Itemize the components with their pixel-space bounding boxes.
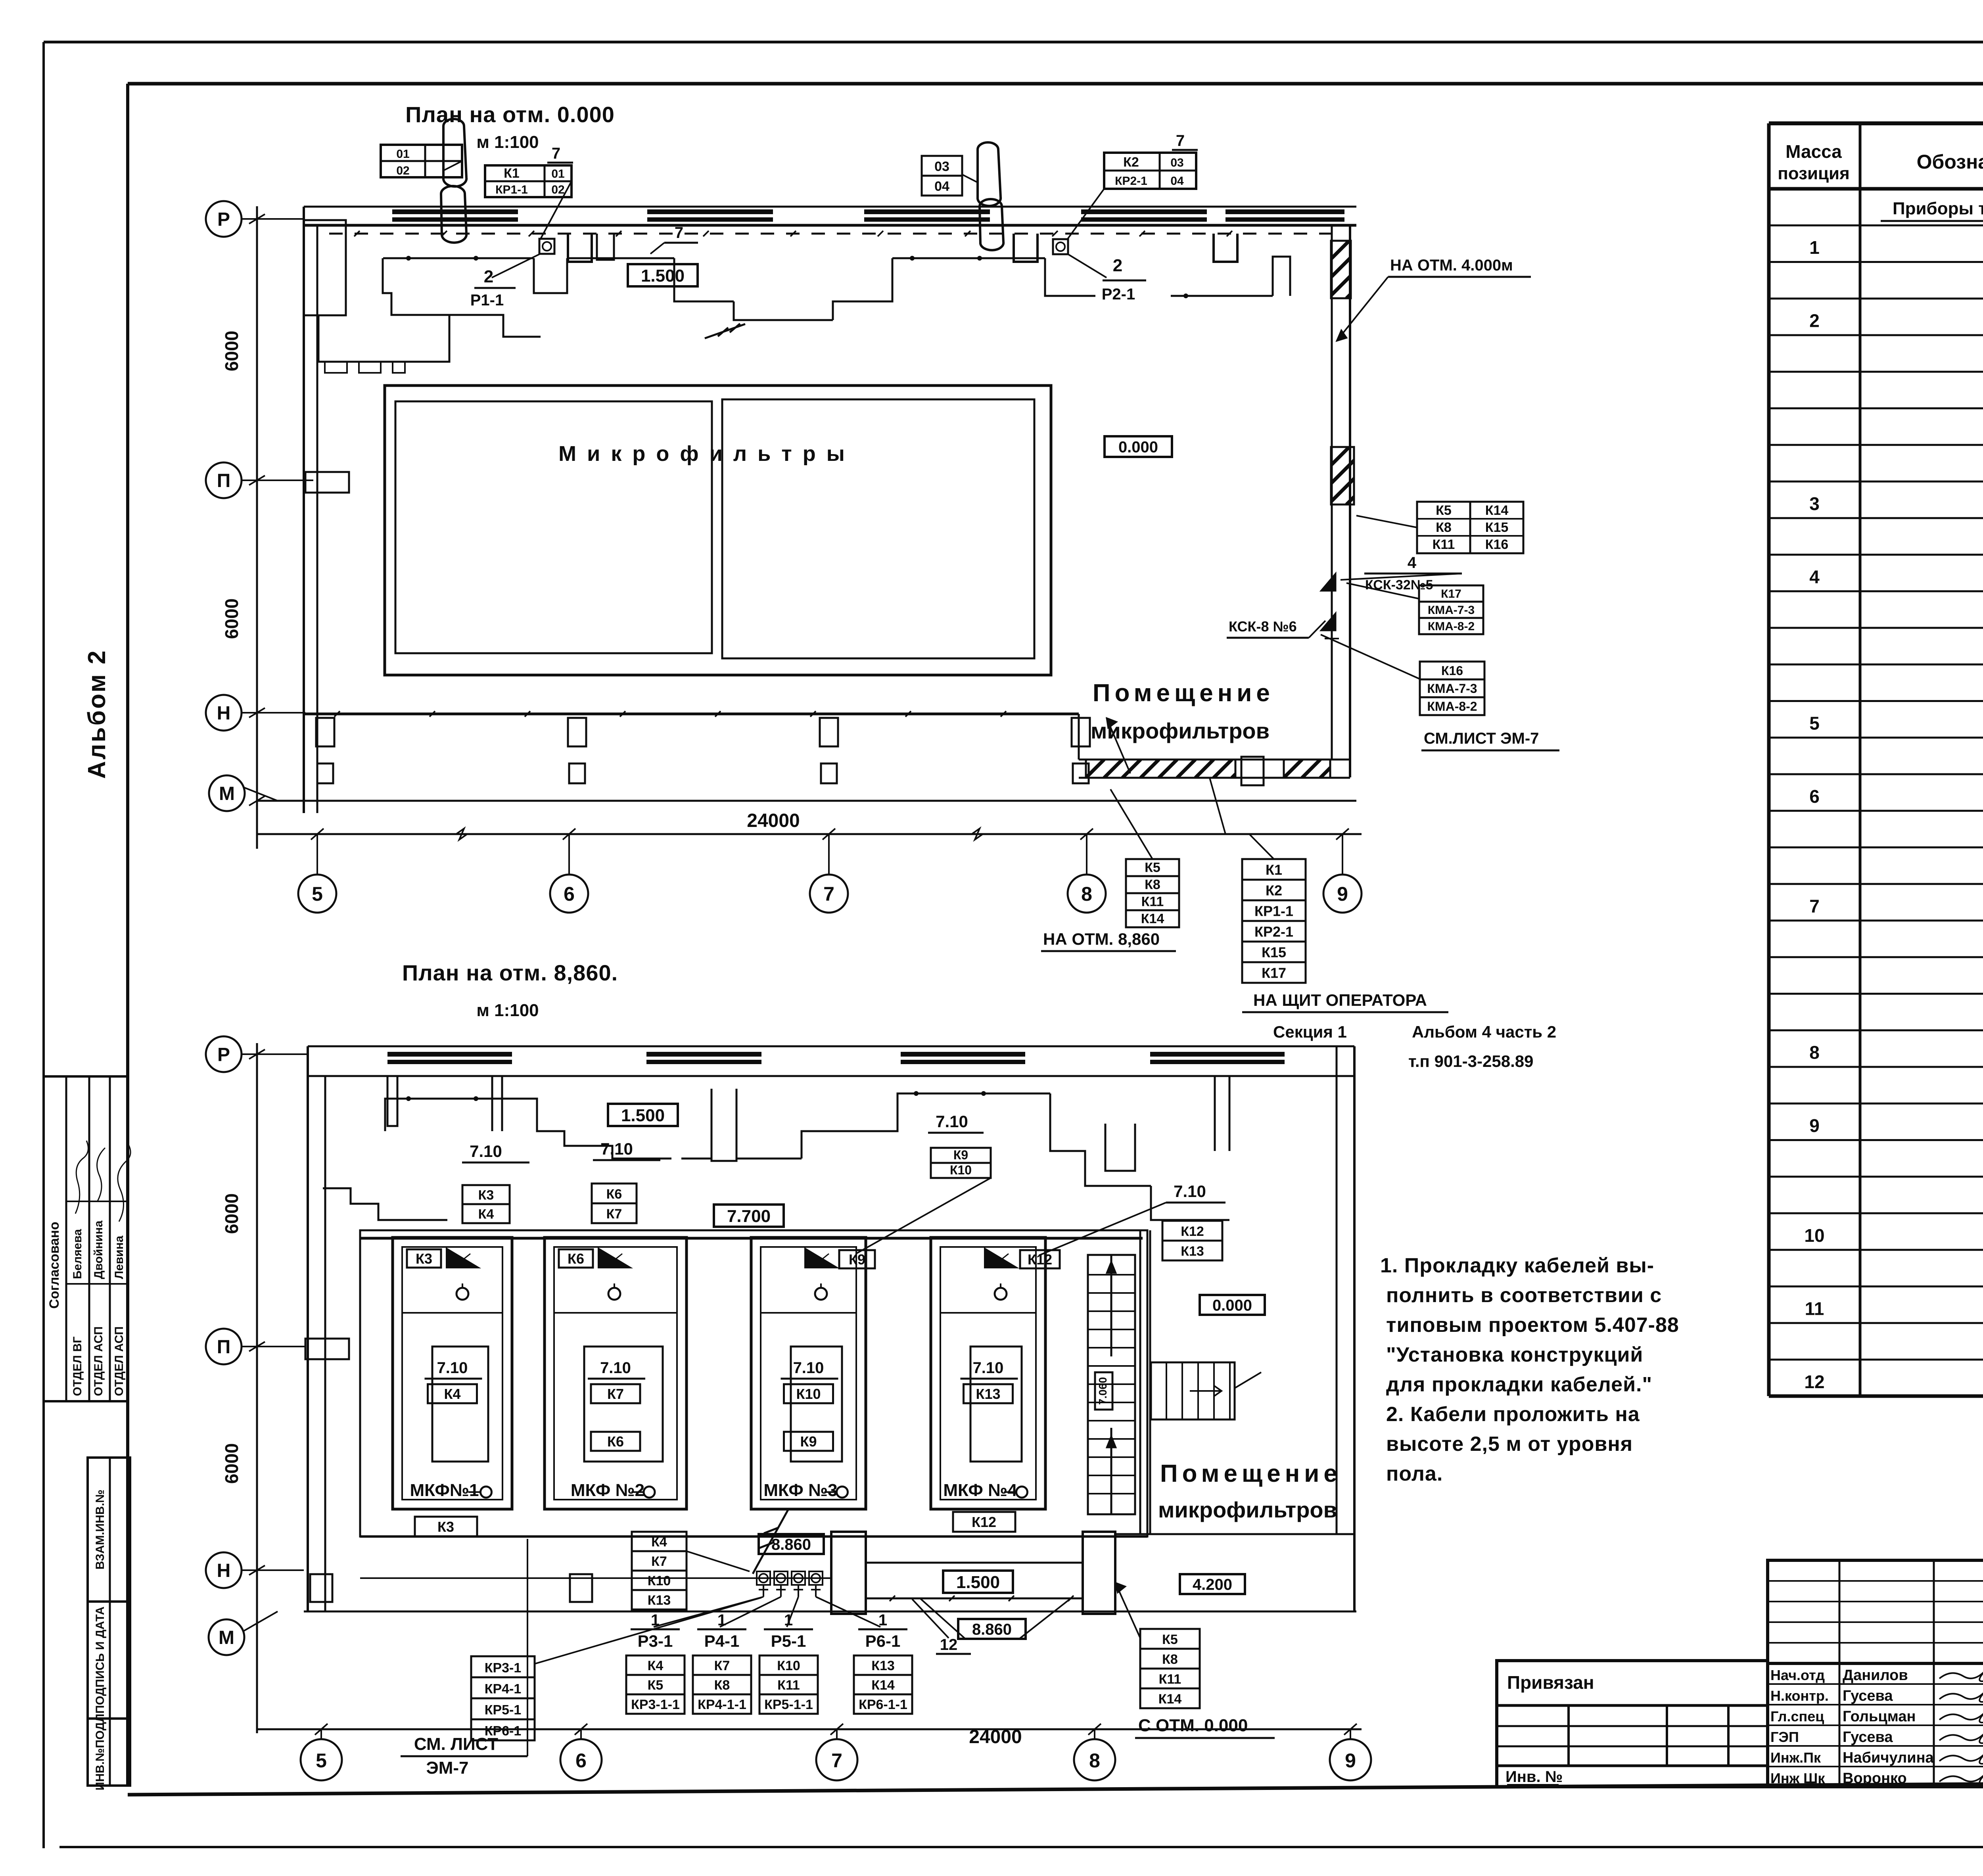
svg-text:Секция 1: Секция 1: [1273, 1022, 1347, 1041]
svg-text:К4: К4: [478, 1207, 494, 1222]
svg-text:м 1:100: м 1:100: [476, 132, 539, 152]
svg-text:Альбом 4 часть 2: Альбом 4 часть 2: [1412, 1022, 1556, 1041]
svg-text:9: 9: [1345, 1749, 1356, 1772]
svg-text:2: 2: [484, 267, 493, 286]
svg-text:Гольцман: Гольцман: [1843, 1708, 1916, 1725]
svg-text:04: 04: [934, 179, 949, 194]
svg-text:МКФ№1: МКФ№1: [410, 1481, 479, 1500]
svg-text:К8: К8: [1436, 520, 1452, 535]
svg-text:7.10: 7.10: [437, 1359, 468, 1377]
svg-text:7.10: 7.10: [973, 1359, 1004, 1377]
svg-text:04: 04: [1170, 175, 1184, 188]
svg-text:К7: К7: [606, 1207, 622, 1222]
svg-text:2: 2: [1809, 311, 1820, 331]
svg-text:5: 5: [316, 1749, 327, 1772]
svg-text:1: 1: [784, 1611, 793, 1629]
svg-text:К4: К4: [651, 1535, 667, 1550]
svg-text:Двойнина: Двойнина: [92, 1220, 105, 1279]
svg-text:К1: К1: [1266, 862, 1282, 878]
svg-text:7.10: 7.10: [600, 1359, 631, 1377]
svg-text:План на отм. 0.000: План на отм. 0.000: [405, 102, 615, 127]
svg-text:1: 1: [717, 1611, 726, 1629]
svg-text:10: 10: [1804, 1225, 1824, 1246]
svg-text:К13: К13: [1181, 1244, 1204, 1259]
svg-text:7.700: 7.700: [727, 1207, 771, 1226]
svg-text:КР3-1-1: КР3-1-1: [631, 1697, 680, 1712]
svg-text:П: П: [217, 1337, 231, 1358]
svg-text:КМА-7-3: КМА-7-3: [1428, 604, 1475, 617]
svg-text:6000: 6000: [221, 331, 242, 371]
svg-text:7.10: 7.10: [600, 1139, 633, 1158]
svg-text:6: 6: [1809, 786, 1820, 807]
svg-text:КР4-1: КР4-1: [485, 1681, 522, 1696]
svg-text:КР6-1-1: КР6-1-1: [859, 1697, 907, 1712]
svg-text:КР1-1: КР1-1: [495, 183, 528, 196]
svg-text:Нач.отд: Нач.отд: [1770, 1667, 1825, 1683]
svg-text:0.000: 0.000: [1118, 438, 1158, 456]
svg-text:К10: К10: [796, 1386, 821, 1402]
svg-text:Инж.Пк: Инж.Пк: [1770, 1749, 1821, 1766]
svg-text:МКФ №4: МКФ №4: [943, 1481, 1017, 1500]
svg-text:для прокладки кабелей.": для прокладки кабелей.": [1386, 1373, 1652, 1396]
svg-text:высоте 2,5 м от уровня: высоте 2,5 м от уровня: [1386, 1433, 1633, 1456]
svg-text:0.000: 0.000: [1212, 1297, 1252, 1314]
svg-text:Р1-1: Р1-1: [470, 292, 504, 309]
svg-text:4: 4: [1809, 566, 1820, 587]
svg-text:7.060: 7.060: [1097, 1377, 1109, 1405]
svg-text:6000: 6000: [221, 1443, 242, 1484]
svg-text:7: 7: [1176, 132, 1185, 150]
svg-text:Гусева: Гусева: [1843, 1688, 1893, 1704]
svg-text:К5: К5: [1162, 1632, 1178, 1647]
svg-text:К10: К10: [950, 1163, 972, 1177]
svg-text:Воронко: Воронко: [1843, 1770, 1907, 1787]
svg-text:1: 1: [1809, 237, 1820, 258]
svg-text:Р3-1: Р3-1: [638, 1632, 673, 1650]
svg-text:7: 7: [552, 145, 560, 162]
svg-text:ЭМ-7: ЭМ-7: [426, 1758, 468, 1778]
svg-text:3: 3: [1809, 493, 1820, 514]
svg-text:Р5-1: Р5-1: [771, 1632, 806, 1650]
svg-text:9: 9: [1809, 1115, 1820, 1136]
svg-text:КР4-1-1: КР4-1-1: [698, 1697, 746, 1712]
svg-text:К11: К11: [1141, 894, 1164, 909]
svg-text:6: 6: [575, 1749, 587, 1772]
svg-text:Привязан: Привязан: [1507, 1672, 1594, 1693]
svg-text:КР2-1: КР2-1: [1254, 924, 1293, 940]
svg-text:8.860: 8.860: [972, 1621, 1012, 1638]
svg-text:Обозначение: Обозначение: [1917, 151, 1983, 173]
svg-text:ИНВ.№ПОДЛ: ИНВ.№ПОДЛ: [94, 1714, 107, 1791]
svg-text:М: М: [219, 783, 235, 804]
svg-text:КМА-8-2: КМА-8-2: [1427, 699, 1477, 714]
svg-text:КР3-1: КР3-1: [485, 1660, 522, 1675]
svg-text:Гл.спец: Гл.спец: [1770, 1708, 1824, 1724]
svg-text:КР2-1: КР2-1: [1115, 175, 1147, 188]
svg-text:К9: К9: [849, 1251, 865, 1268]
svg-text:СМ.ЛИСТ ЭМ-7: СМ.ЛИСТ ЭМ-7: [1424, 730, 1539, 747]
svg-text:Гусева: Гусева: [1843, 1729, 1893, 1746]
svg-text:7: 7: [823, 883, 834, 905]
svg-text:К11: К11: [1159, 1672, 1181, 1687]
svg-text:К2: К2: [1266, 882, 1282, 899]
svg-text:К15: К15: [1485, 520, 1509, 535]
svg-text:К9: К9: [800, 1433, 817, 1450]
svg-text:К6: К6: [606, 1187, 622, 1202]
svg-text:7.10: 7.10: [470, 1142, 502, 1161]
svg-text:К8: К8: [1145, 877, 1160, 892]
svg-text:К3: К3: [437, 1519, 454, 1535]
svg-text:Р: Р: [217, 209, 230, 230]
svg-text:ОТДЕЛ АСП: ОТДЕЛ АСП: [92, 1326, 105, 1396]
svg-text:КР1-1: КР1-1: [1254, 903, 1293, 919]
svg-text:К17: К17: [1262, 965, 1286, 981]
svg-text:ОТДЕЛ АСП: ОТДЕЛ АСП: [113, 1326, 126, 1396]
svg-text:позиция: позиция: [1778, 164, 1850, 183]
svg-text:М и к р о ф и л ь т р ы: М и к р о ф и л ь т р ы: [558, 442, 847, 466]
svg-text:Н.контр.: Н.контр.: [1770, 1688, 1829, 1704]
svg-text:1: 1: [878, 1611, 887, 1629]
svg-text:К9: К9: [953, 1148, 968, 1162]
svg-text:Инв. №: Инв. №: [1505, 1768, 1563, 1786]
svg-text:1. Прокладку кабелей вы-: 1. Прокладку кабелей вы-: [1380, 1254, 1654, 1277]
svg-text:8: 8: [1089, 1749, 1100, 1772]
svg-text:1: 1: [651, 1611, 660, 1629]
svg-text:5: 5: [1809, 713, 1820, 733]
svg-text:4: 4: [1408, 554, 1417, 572]
svg-text:К14: К14: [1158, 1692, 1182, 1707]
svg-text:Н: Н: [217, 1560, 231, 1581]
svg-text:02: 02: [551, 183, 564, 196]
svg-text:К10: К10: [777, 1658, 800, 1673]
svg-text:К5: К5: [1145, 860, 1160, 875]
svg-text:К13: К13: [648, 1593, 671, 1608]
svg-text:КР5-1: КР5-1: [485, 1702, 522, 1717]
svg-text:Помещение: Помещение: [1093, 679, 1274, 707]
svg-text:7.10: 7.10: [793, 1359, 824, 1377]
svg-text:Инж Шк: Инж Шк: [1770, 1770, 1825, 1786]
svg-text:К4: К4: [648, 1658, 664, 1673]
svg-text:7.10: 7.10: [1174, 1182, 1206, 1201]
svg-text:6000: 6000: [221, 598, 242, 639]
svg-text:К14: К14: [1141, 911, 1164, 926]
svg-text:микрофильтров: микрофильтров: [1158, 1497, 1337, 1522]
svg-text:7: 7: [1809, 896, 1820, 917]
svg-text:К13: К13: [871, 1658, 895, 1673]
svg-text:полнить в соответствии с: полнить в соответствии с: [1386, 1284, 1662, 1307]
svg-text:КМА-7-3: КМА-7-3: [1427, 681, 1477, 696]
svg-text:К1: К1: [504, 166, 520, 181]
svg-text:1.500: 1.500: [956, 1573, 1000, 1592]
svg-text:Помещение: Помещение: [1160, 1460, 1342, 1487]
svg-text:Н: Н: [217, 703, 231, 724]
svg-text:К2: К2: [1123, 155, 1139, 170]
svg-text:Набичулина: Набичулина: [1843, 1749, 1934, 1766]
svg-text:К14: К14: [871, 1678, 895, 1693]
svg-text:МКФ №3: МКФ №3: [763, 1481, 837, 1500]
svg-text:Альбом 2: Альбом 2: [83, 649, 111, 779]
svg-text:Беляева: Беляева: [71, 1229, 84, 1279]
svg-text:Р6-1: Р6-1: [865, 1632, 901, 1650]
svg-text:ВЗАМ.ИНВ.№: ВЗАМ.ИНВ.№: [94, 1490, 107, 1570]
svg-text:НА ОТМ. 4.000м: НА ОТМ. 4.000м: [1390, 257, 1513, 274]
svg-text:К3: К3: [478, 1187, 494, 1203]
svg-text:8.860: 8.860: [771, 1536, 811, 1553]
svg-text:типовым проектом 5.407-88: типовым проектом 5.407-88: [1386, 1314, 1679, 1337]
svg-text:ОТДЕЛ ВГ: ОТДЕЛ ВГ: [71, 1337, 84, 1396]
svg-text:План на отм. 8,860.: План на отм. 8,860.: [402, 960, 618, 985]
svg-text:К8: К8: [1162, 1652, 1178, 1667]
svg-text:ПОДПИСЬ И ДАТА: ПОДПИСЬ И ДАТА: [94, 1606, 107, 1713]
svg-text:НА ЩИТ ОПЕРАТОРА: НА ЩИТ ОПЕРАТОРА: [1253, 991, 1427, 1009]
svg-text:М: М: [219, 1627, 234, 1648]
svg-text:8: 8: [1809, 1042, 1820, 1063]
svg-text:С ОТМ. 0.000: С ОТМ. 0.000: [1138, 1716, 1248, 1735]
svg-text:К10: К10: [648, 1573, 671, 1588]
svg-text:КМА-8-2: КМА-8-2: [1428, 620, 1475, 633]
svg-text:К16: К16: [1485, 537, 1509, 552]
svg-text:П: П: [217, 470, 231, 491]
svg-text:Р2-1: Р2-1: [1102, 286, 1135, 303]
svg-text:К7: К7: [607, 1386, 624, 1402]
svg-text:К15: К15: [1262, 944, 1286, 961]
svg-text:7.10: 7.10: [936, 1112, 968, 1131]
svg-text:9: 9: [1337, 883, 1348, 905]
svg-text:К12: К12: [1181, 1224, 1204, 1239]
svg-text:К13: К13: [976, 1386, 1000, 1402]
svg-text:03: 03: [934, 159, 949, 174]
svg-text:4.200: 4.200: [1193, 1576, 1232, 1593]
svg-text:01: 01: [396, 148, 409, 161]
svg-text:КР5-1-1: КР5-1-1: [764, 1697, 813, 1712]
svg-text:Данилов: Данилов: [1843, 1667, 1908, 1684]
svg-text:К4: К4: [444, 1386, 461, 1402]
svg-text:К17: К17: [1441, 587, 1461, 600]
svg-text:7: 7: [675, 224, 683, 242]
svg-text:м 1:100: м 1:100: [476, 1001, 539, 1020]
svg-text:К6: К6: [607, 1433, 624, 1450]
svg-text:К5: К5: [1436, 503, 1452, 518]
svg-text:03: 03: [1170, 156, 1183, 169]
svg-text:24000: 24000: [969, 1726, 1022, 1747]
svg-text:24000: 24000: [747, 810, 800, 831]
svg-text:К14: К14: [1485, 503, 1509, 518]
svg-text:2: 2: [1113, 256, 1122, 275]
svg-text:02: 02: [396, 164, 409, 177]
svg-text:Масса: Масса: [1785, 141, 1842, 162]
svg-text:Приборы технологического контр: Приборы технологического контроля: [1893, 199, 1983, 219]
svg-text:пола.: пола.: [1386, 1462, 1443, 1485]
svg-text:т.п 901-3-258.89: т.п 901-3-258.89: [1408, 1052, 1533, 1070]
svg-text:2. Кабели проложить на: 2. Кабели проложить на: [1386, 1403, 1640, 1426]
svg-text:К7: К7: [651, 1554, 667, 1569]
svg-text:11: 11: [1805, 1298, 1824, 1319]
svg-text:01: 01: [551, 167, 564, 180]
svg-text:К12: К12: [1028, 1251, 1052, 1268]
svg-text:К11: К11: [777, 1678, 800, 1693]
svg-text:Согласовано: Согласовано: [47, 1222, 62, 1309]
svg-text:5: 5: [312, 883, 323, 905]
svg-text:12: 12: [940, 1636, 958, 1653]
svg-text:К12: К12: [972, 1514, 996, 1530]
svg-text:К16: К16: [1441, 664, 1463, 678]
svg-text:6: 6: [564, 883, 575, 905]
svg-text:"Установка конструкций: "Установка конструкций: [1386, 1343, 1643, 1366]
svg-text:К3: К3: [416, 1251, 432, 1267]
svg-text:К11: К11: [1433, 537, 1455, 552]
svg-text:КСК-8 №6: КСК-8 №6: [1229, 618, 1297, 635]
svg-text:ГЭП: ГЭП: [1770, 1729, 1799, 1745]
svg-text:МКФ №2: МКФ №2: [571, 1481, 644, 1500]
svg-text:Р4-1: Р4-1: [704, 1632, 740, 1650]
svg-text:1.500: 1.500: [641, 266, 685, 286]
svg-text:КР6-1: КР6-1: [485, 1723, 522, 1738]
svg-text:Р: Р: [217, 1044, 230, 1065]
svg-text:7: 7: [831, 1749, 842, 1772]
svg-text:НА ОТМ. 8,860: НА ОТМ. 8,860: [1043, 930, 1160, 948]
svg-text:Левина: Левина: [113, 1235, 126, 1279]
svg-text:К7: К7: [714, 1658, 730, 1673]
svg-text:К5: К5: [648, 1678, 664, 1693]
svg-text:6000: 6000: [221, 1193, 242, 1234]
svg-text:К8: К8: [714, 1678, 730, 1693]
svg-text:8: 8: [1081, 883, 1092, 905]
svg-text:12: 12: [1804, 1372, 1824, 1392]
svg-text:К6: К6: [568, 1251, 584, 1267]
svg-text:1.500: 1.500: [621, 1106, 665, 1125]
